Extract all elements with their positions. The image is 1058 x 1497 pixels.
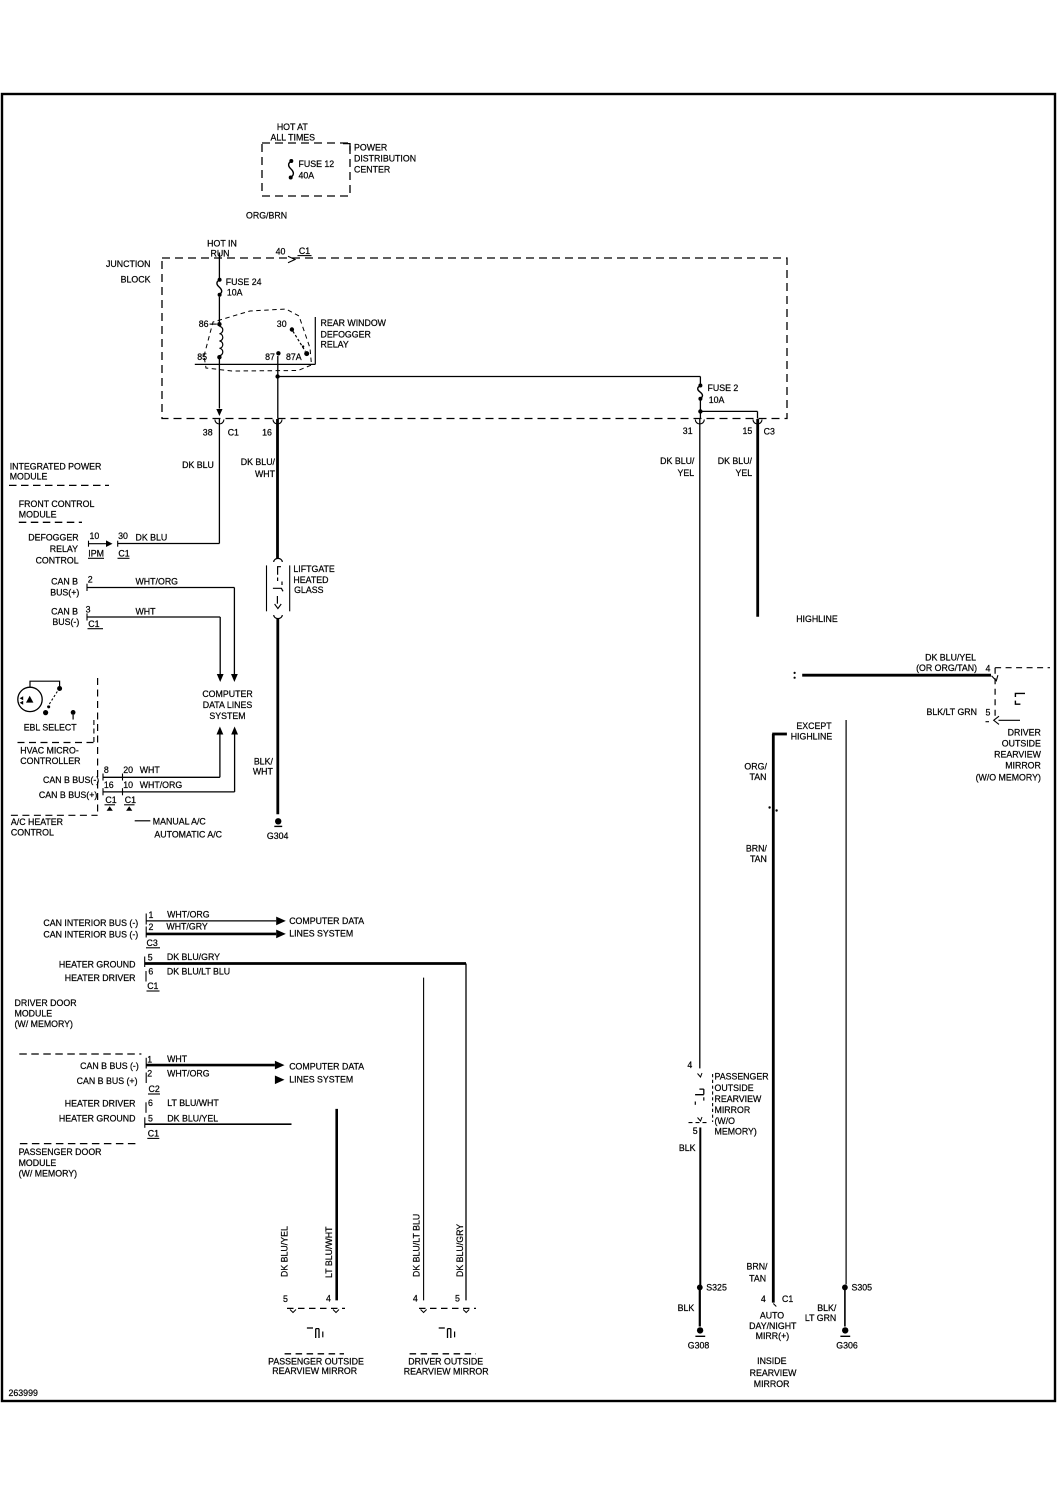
PDM CAN B BUS (-) pin 1 WHT (80, 1054, 284, 1071)
svg-text:30: 30 (277, 319, 287, 329)
svg-text:16: 16 (104, 780, 114, 790)
svg-text:(W/O: (W/O (715, 1116, 736, 1126)
svg-text:CONTROL: CONTROL (36, 556, 79, 566)
svg-text:INSIDE: INSIDE (757, 1356, 786, 1366)
wire BLK splice to ground (678, 1290, 700, 1327)
PDM HEATER GROUND pin 5 DK BLU/YEL (59, 1113, 292, 1127)
svg-text:HEATER DRIVER: HEATER DRIVER (65, 1098, 136, 1108)
svg-text:FUSE 12: FUSE 12 (299, 159, 335, 169)
svg-text:MODULE: MODULE (19, 509, 57, 519)
svg-text:WHT: WHT (253, 767, 274, 777)
svg-text:DEFOGGER: DEFOGGER (28, 533, 78, 543)
svg-text:87: 87 (265, 352, 275, 362)
svg-text:REARVIEW: REARVIEW (715, 1094, 762, 1104)
label HOT AT ALL TIMES (271, 122, 316, 142)
svg-text:DK BLU/LT BLU: DK BLU/LT BLU (167, 967, 230, 977)
svg-text:C3: C3 (764, 426, 775, 436)
svg-text:BLK/: BLK/ (817, 1303, 837, 1313)
svg-text:FUSE 2: FUSE 2 (708, 383, 739, 393)
svg-text:POWER: POWER (354, 143, 387, 153)
svg-text:WHT/ORG: WHT/ORG (167, 1068, 210, 1078)
defogger relay control pins 10 IPM / 30 C1 (28, 531, 167, 566)
svg-text:MIRR(+): MIRR(+) (756, 1331, 790, 1341)
svg-text:DAY/NIGHT: DAY/NIGHT (749, 1321, 797, 1331)
connector C1 (DDM) (147, 981, 160, 991)
wire hot in run (218, 253, 220, 279)
module label INTEGRATED POWER MODULE (9, 462, 109, 486)
svg-text:40A: 40A (299, 170, 315, 180)
svg-text:85: 85 (197, 352, 207, 362)
svg-text:JUNCTION: JUNCTION (106, 259, 150, 269)
svg-text:DRIVER: DRIVER (1008, 728, 1041, 738)
connectors C1 C1 with triangles (105, 795, 137, 811)
connector pins 31 and 15 C3 (683, 420, 775, 437)
DDM HEATER DRIVER pin 6 wire DK BLU/LT BLU (65, 967, 424, 1301)
svg-text:EXCEPT: EXCEPT (796, 721, 832, 731)
svg-text:HEATER GROUND: HEATER GROUND (59, 959, 136, 969)
svg-text:OUTSIDE: OUTSIDE (715, 1083, 754, 1093)
wire DK BLU/WHT pin 16 to liftgate glass (241, 419, 278, 559)
svg-text:CAN INTERIOR BUS (-): CAN INTERIOR BUS (-) (43, 918, 138, 928)
svg-text:5: 5 (148, 1113, 153, 1123)
wire relay 85 down to pin 38 (216, 359, 222, 416)
svg-text:BLK: BLK (678, 1303, 695, 1313)
svg-text:2: 2 (88, 575, 93, 585)
label INSIDE REARVIEW MIRROR (750, 1356, 797, 1389)
svg-text:WHT: WHT (140, 765, 161, 775)
svg-text:WHT/ORG: WHT/ORG (167, 910, 210, 920)
svg-text:MEMORY): MEMORY) (715, 1127, 757, 1137)
svg-text:DK BLU/: DK BLU/ (660, 456, 695, 466)
wire label DK BLU/LT BLU (rotated) (411, 1214, 421, 1277)
svg-text:CONTROLLER: CONTROLLER (20, 756, 80, 766)
svg-text:5: 5 (986, 708, 991, 718)
passenger outside rearview mirror (w/o memory) (687, 1060, 712, 1136)
connector pins 38 C1 and 16 (203, 420, 282, 438)
svg-text:BLK: BLK (679, 1143, 696, 1153)
svg-text:AUTOMATIC A/C: AUTOMATIC A/C (154, 830, 222, 840)
svg-text:A/C HEATER: A/C HEATER (11, 817, 63, 827)
label MANUAL A/C / AUTOMATIC A/C (135, 816, 223, 839)
wire BLK from mirror pin 5 to splice (679, 1128, 700, 1286)
module label PASSENGER DOOR MODULE (W/ MEMORY) (19, 1144, 139, 1179)
svg-text:BUS(+): BUS(+) (50, 588, 79, 598)
svg-text:MIRROR: MIRROR (715, 1105, 751, 1115)
svg-text:AUTO: AUTO (760, 1311, 784, 1321)
A/C heater CAN B BUS(+) pins 16 / 10 WHT/ORG (39, 780, 182, 800)
svg-text:LINES SYSTEM: LINES SYSTEM (289, 1075, 353, 1085)
svg-text:DK BLU/GRY: DK BLU/GRY (455, 1224, 465, 1277)
label DRIVER OUTSIDE REARVIEW MIRROR (W/O MEMORY) (976, 728, 1042, 783)
connector C1 (PDM) (147, 1129, 159, 1139)
label HVAC MICRO-CONTROLLER (20, 746, 80, 767)
svg-text:263999: 263999 (9, 1388, 38, 1398)
svg-text:ORG/: ORG/ (744, 761, 767, 771)
svg-text:REARVIEW MIRROR: REARVIEW MIRROR (272, 1366, 357, 1376)
svg-text:ALL TIMES: ALL TIMES (271, 132, 316, 142)
svg-text:4: 4 (687, 1060, 692, 1070)
svg-text:IPM: IPM (88, 549, 104, 559)
wire fuse24 to relay coil (218, 297, 220, 323)
wire label DK BLU/YEL (rotated) (279, 1226, 289, 1277)
svg-text:C1: C1 (105, 795, 116, 805)
connector pin 4 C1 auto day/night mirror (761, 1294, 794, 1306)
svg-text:(OR ORG/TAN): (OR ORG/TAN) (916, 663, 977, 673)
svg-text:LT GRN: LT GRN (805, 1313, 836, 1323)
svg-text:WHT: WHT (167, 1054, 188, 1064)
fuse F12 FUSE 12 40A (289, 159, 335, 180)
svg-text:(W/ MEMORY): (W/ MEMORY) (19, 1168, 78, 1178)
svg-text:4: 4 (326, 1294, 331, 1304)
svg-text:C1: C1 (148, 1129, 159, 1139)
svg-text:10A: 10A (227, 288, 243, 298)
svg-text:DISTRIBUTION: DISTRIBUTION (354, 154, 416, 164)
connector C1 pin 40 (276, 246, 312, 263)
svg-text:CAN B BUS (-): CAN B BUS (-) (80, 1061, 139, 1071)
svg-text:(W/ MEMORY): (W/ MEMORY) (15, 1019, 74, 1029)
svg-text:WHT: WHT (255, 469, 276, 479)
svg-text:DK BLU/: DK BLU/ (241, 457, 276, 467)
svg-text:HOT IN: HOT IN (207, 239, 237, 249)
svg-text:LIFTGATE: LIFTGATE (293, 564, 335, 574)
wire DK BLU/YEL pin 15 (thick, HIGHLINE) (718, 419, 758, 617)
svg-text:CONTROL: CONTROL (11, 828, 54, 838)
svg-text:CAN B: CAN B (51, 577, 78, 587)
svg-text:WHT: WHT (136, 607, 157, 617)
ground G306 (836, 1327, 858, 1350)
svg-text:DK BLU/GRY: DK BLU/GRY (167, 952, 220, 962)
svg-text:REAR WINDOW: REAR WINDOW (321, 318, 387, 328)
svg-text:C1: C1 (125, 795, 136, 805)
svg-text:DK BLU/YEL: DK BLU/YEL (167, 1113, 218, 1123)
passenger door module top dashed edge (19, 1053, 141, 1055)
svg-text:RELAY: RELAY (321, 340, 349, 350)
svg-text:WHT/ORG: WHT/ORG (140, 780, 183, 790)
label POWER DISTRIBUTION CENTER (354, 143, 416, 175)
svg-text:COMPUTER DATA: COMPUTER DATA (289, 1062, 364, 1072)
svg-text:DK BLU/YEL: DK BLU/YEL (279, 1226, 289, 1277)
svg-text:2: 2 (147, 1069, 152, 1079)
svg-text:DRIVER OUTSIDE: DRIVER OUTSIDE (408, 1357, 483, 1367)
svg-text:TAN: TAN (750, 772, 767, 782)
svg-text:4: 4 (761, 1294, 766, 1304)
junction block box (162, 258, 787, 419)
label JUNCTION BLOCK (106, 259, 151, 285)
svg-text:10: 10 (123, 780, 133, 790)
svg-text:GLASS: GLASS (294, 585, 323, 595)
fuse F2 FUSE 2 10A (698, 377, 739, 406)
svg-text:5: 5 (283, 1294, 288, 1304)
svg-text:YEL: YEL (736, 468, 753, 478)
svg-text:REARVIEW: REARVIEW (750, 1368, 797, 1378)
svg-text:C2: C2 (149, 1084, 160, 1094)
splice S305 (842, 1283, 872, 1293)
svg-text:ORG/BRN: ORG/BRN (246, 211, 287, 221)
svg-text:TAN: TAN (749, 1273, 766, 1283)
svg-text:BRN/: BRN/ (746, 1262, 768, 1272)
svg-text:C1: C1 (88, 619, 99, 629)
wire WHT/ORG from A/C heater CAN B BUS(+) up to data lines (103, 727, 238, 792)
svg-text:BLK/: BLK/ (254, 756, 274, 766)
svg-text:BUS(-): BUS(-) (52, 617, 79, 627)
DDM CAN INTERIOR BUS row 2 pin 2 WHT/GRY (43, 922, 285, 940)
wire WHT from A/C heater CAN B BUS(-) up to data lines (103, 727, 223, 778)
svg-text:DK BLU: DK BLU (136, 532, 168, 542)
svg-text:CAN INTERIOR BUS (-): CAN INTERIOR BUS (-) (43, 930, 138, 940)
svg-text:MANUAL A/C: MANUAL A/C (153, 816, 207, 826)
wire ORG/TAN - BRN/TAN to auto day/night mirror (744, 734, 786, 1303)
svg-text:OUTSIDE: OUTSIDE (1002, 739, 1041, 749)
svg-text:(W/O MEMORY): (W/O MEMORY) (976, 772, 1041, 782)
svg-text:MODULE: MODULE (15, 1009, 53, 1019)
DDM HEATER GROUND pin 5 wire DK BLU/GRY (59, 952, 466, 1301)
svg-text:10: 10 (90, 531, 100, 541)
svg-text:1: 1 (149, 910, 154, 920)
svg-text:C1: C1 (782, 1294, 793, 1304)
DDM CAN INTERIOR BUS row 1 pin 1 WHT/ORG (43, 910, 285, 928)
svg-text:HVAC MICRO-: HVAC MICRO- (20, 746, 79, 756)
passenger outside rearview mirror (heated) (268, 1294, 364, 1376)
svg-text:1: 1 (147, 1054, 152, 1064)
svg-text:HEATER GROUND: HEATER GROUND (59, 1114, 136, 1124)
wire label DK BLU/GRY (rotated) (455, 1224, 465, 1277)
wire label LT BLU/WHT (rotated) (324, 1226, 334, 1278)
svg-text:C3: C3 (147, 938, 158, 948)
svg-text:EBL SELECT: EBL SELECT (24, 723, 78, 733)
svg-text:DRIVER DOOR: DRIVER DOOR (15, 998, 77, 1008)
svg-text:4: 4 (986, 664, 991, 674)
wire label EXCEPT HIGHLINE (791, 721, 833, 742)
svg-text:WHT/ORG: WHT/ORG (136, 577, 179, 587)
svg-text:HEATER DRIVER: HEATER DRIVER (65, 973, 136, 983)
svg-text:HEATED: HEATED (293, 575, 328, 585)
svg-text:LT BLU/WHT: LT BLU/WHT (324, 1226, 334, 1278)
splice S325 (697, 1283, 727, 1293)
A/C heater control dashed box (11, 678, 98, 815)
svg-text:CAN B: CAN B (51, 607, 78, 617)
module label DRIVER DOOR MODULE (W/ MEMORY) (15, 998, 77, 1029)
svg-text:DK BLU: DK BLU (182, 460, 214, 470)
svg-text:S305: S305 (852, 1283, 873, 1293)
svg-text:MIRROR: MIRROR (754, 1379, 790, 1389)
svg-text:MODULE: MODULE (10, 471, 48, 481)
liftgate heated glass element (267, 558, 290, 618)
svg-text:DATA LINES: DATA LINES (203, 700, 253, 710)
svg-text:DEFOGGER: DEFOGGER (321, 330, 371, 340)
svg-text:BLOCK: BLOCK (121, 275, 151, 285)
svg-text:DK BLU/: DK BLU/ (718, 456, 753, 466)
svg-text:FRONT CONTROL: FRONT CONTROL (19, 499, 95, 509)
svg-text:FUSE 24: FUSE 24 (226, 277, 262, 287)
FCM CAN B BUS(-) pin 3 C1, wire WHT (51, 604, 223, 682)
label LIFTGATE HEATED GLASS (293, 564, 335, 595)
connector C3 (146, 938, 160, 948)
svg-text:LINES SYSTEM: LINES SYSTEM (289, 929, 353, 939)
svg-text:COMPUTER: COMPUTER (202, 689, 252, 699)
svg-text:6: 6 (148, 1098, 153, 1108)
svg-text:INTEGRATED POWER: INTEGRATED POWER (10, 462, 102, 472)
svg-text:BRN/: BRN/ (746, 844, 768, 854)
svg-text:PASSENGER DOOR: PASSENGER DOOR (19, 1147, 102, 1157)
wire DK BLU/YEL (OR ORG/TAN) to driver mirror pin 4 (794, 653, 992, 679)
wire label ORG/BRN (246, 211, 287, 221)
svg-text:WHT/GRY: WHT/GRY (166, 922, 208, 932)
svg-text:G304: G304 (267, 831, 289, 841)
PDM CAN B BUS (+) pin 2 WHT/ORG (wire not visible) (77, 1068, 285, 1086)
svg-text:BLK/LT GRN: BLK/LT GRN (926, 707, 977, 717)
connector C2 (148, 1084, 160, 1094)
svg-text:5: 5 (455, 1294, 460, 1304)
wire relay 87 down and right to fuse 2 (275, 356, 700, 419)
label A/C HEATER CONTROL (11, 817, 63, 837)
node COMPUTER DATA LINES SYSTEM (middle) (289, 916, 364, 938)
svg-text:20: 20 (123, 765, 133, 775)
wire label HIGHLINE (796, 614, 838, 624)
svg-text:40: 40 (276, 246, 286, 256)
switch EBL SELECT (18, 681, 77, 732)
svg-text:YEL: YEL (677, 468, 694, 478)
node COMPUTER DATA LINES SYSTEM (lower) (289, 1062, 364, 1085)
svg-text:TAN: TAN (750, 854, 767, 864)
svg-text:DK BLU/YEL: DK BLU/YEL (925, 653, 976, 663)
svg-text:MIRROR: MIRROR (1005, 761, 1041, 771)
svg-text:38: 38 (203, 427, 213, 437)
svg-text:REARVIEW: REARVIEW (994, 750, 1041, 760)
svg-text:CAN B BUS (+): CAN B BUS (+) (77, 1076, 138, 1086)
svg-text:15: 15 (743, 426, 753, 436)
svg-text:CAN B BUS(+): CAN B BUS(+) (39, 790, 97, 800)
label REAR WINDOW DEFOGGER RELAY (321, 318, 387, 349)
ground G304 (267, 818, 289, 841)
A/C heater CAN B BUS(-) pins 8 / 20 WHT (43, 765, 160, 785)
svg-text:CAN B BUS(-): CAN B BUS(-) (43, 775, 99, 785)
driver outside rearview mirror (w/o memory) box (926, 668, 1050, 725)
svg-text:2: 2 (149, 922, 154, 932)
wire fuse2 to pins 31 and 15 (698, 400, 757, 419)
svg-text:C1: C1 (118, 549, 129, 559)
svg-text:30: 30 (118, 531, 128, 541)
svg-text:S325: S325 (706, 1283, 727, 1293)
svg-text:G308: G308 (688, 1341, 710, 1351)
svg-text:6: 6 (148, 967, 153, 977)
svg-text:LT BLU/WHT: LT BLU/WHT (167, 1098, 219, 1108)
svg-text:C1: C1 (228, 428, 239, 438)
svg-text:4: 4 (413, 1294, 418, 1304)
label AUTO DAY/NIGHT MIRR(+) (749, 1311, 797, 1342)
wire BLK/LT GRN splice to ground (805, 1290, 845, 1327)
svg-text:3: 3 (86, 604, 91, 614)
svg-text:SYSTEM: SYSTEM (209, 711, 245, 721)
wire BLK/LT GRN from driver mirror pin 5 (845, 720, 847, 1285)
svg-text:REARVIEW MIRROR: REARVIEW MIRROR (404, 1366, 489, 1376)
FCM CAN B BUS(+) pin 2, wire WHT/ORG (50, 575, 238, 683)
svg-text:HIGHLINE: HIGHLINE (796, 614, 838, 624)
driver outside rearview mirror (heated) (404, 1294, 489, 1377)
svg-text:G306: G306 (836, 1341, 858, 1351)
svg-text:PASSENGER: PASSENGER (715, 1072, 769, 1082)
wire BLK/WHT to ground (253, 619, 278, 815)
svg-text:31: 31 (683, 426, 693, 436)
svg-text:C1: C1 (147, 981, 158, 991)
svg-text:87A: 87A (286, 352, 302, 362)
PDM HEATER DRIVER pin 6 LT BLU/WHT (65, 1098, 337, 1300)
svg-text:10A: 10A (709, 395, 725, 405)
fuse F24 FUSE 24 10A (217, 277, 262, 298)
svg-text:DK BLU/LT BLU: DK BLU/LT BLU (411, 1214, 421, 1277)
svg-text:5: 5 (148, 952, 153, 962)
svg-text:C1: C1 (299, 246, 310, 256)
relay rear window defogger relay (195, 309, 315, 371)
svg-text:COMPUTER DATA: COMPUTER DATA (289, 916, 364, 926)
node COMPUTER DATA LINES SYSTEM (upper) (202, 689, 252, 721)
svg-text:MODULE: MODULE (19, 1158, 57, 1168)
svg-text:16: 16 (262, 428, 272, 438)
power distribution center box (262, 143, 350, 196)
label PASSENGER OUTSIDE REARVIEW MIRROR (W/O MEMORY) (715, 1072, 769, 1137)
svg-text:HIGHLINE: HIGHLINE (791, 732, 833, 742)
svg-text:5: 5 (693, 1126, 698, 1136)
ground G308 (688, 1327, 710, 1350)
svg-text:CENTER: CENTER (354, 165, 390, 175)
svg-text:8: 8 (104, 765, 109, 775)
label HOT IN RUN (207, 239, 237, 259)
svg-text:HOT AT: HOT AT (277, 122, 309, 132)
wire DK BLU pin 38 to FCM pin 30 (118, 419, 220, 544)
module label FRONT CONTROL MODULE (19, 499, 95, 522)
wire DK BLU/YEL pin 31 (thin, to passenger mirror w/o memory) (660, 419, 700, 1068)
svg-text:RELAY: RELAY (50, 544, 78, 554)
svg-text:86: 86 (199, 319, 209, 329)
